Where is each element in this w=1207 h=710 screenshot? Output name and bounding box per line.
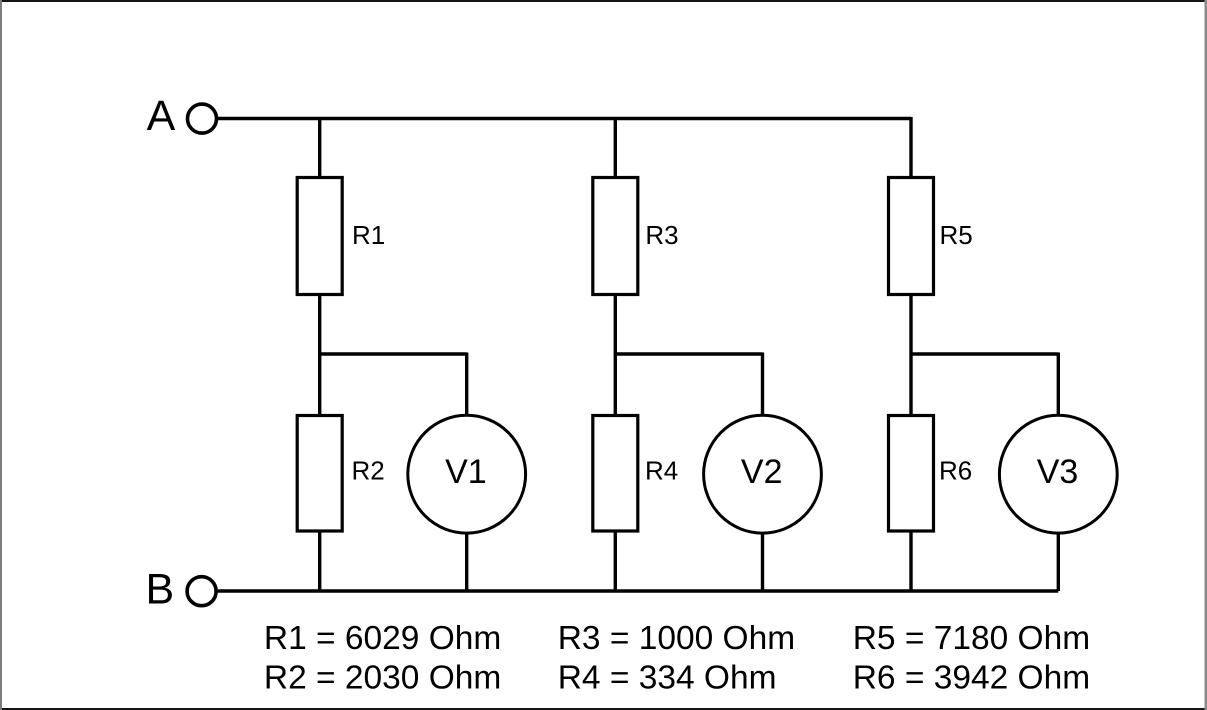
voltmeter V1 xyxy=(408,415,526,533)
wire V1 upper lead xyxy=(465,353,468,417)
wire branch 2 junction to V2 xyxy=(614,352,763,355)
resistor R4 xyxy=(593,416,638,532)
svg-text:V3: V3 xyxy=(1037,453,1079,491)
wire branch 2 lower lead xyxy=(614,531,617,591)
wire bottom bus from B to V3 lead xyxy=(218,589,1059,592)
svg-text:R6 = 3942 Ohm: R6 = 3942 Ohm xyxy=(853,660,1090,697)
border frame bottom xyxy=(0,708,1207,710)
svg-text:R5: R5 xyxy=(940,220,973,250)
node A terminal circle xyxy=(188,104,217,133)
wire V1 lower lead xyxy=(465,533,468,591)
wire branch 3 junction to V3 xyxy=(910,352,1059,355)
wire branch 3 upper lead xyxy=(909,117,912,179)
border frame left xyxy=(0,0,2,710)
wire branch 1 upper lead xyxy=(318,117,321,179)
wire V2 lower lead xyxy=(761,533,764,591)
wire branch 2 upper lead xyxy=(614,117,617,179)
wire top bus from A to branch 3 xyxy=(218,117,911,120)
svg-text:R1 = 6029 Ohm: R1 = 6029 Ohm xyxy=(264,620,501,657)
voltmeter V3 xyxy=(999,415,1117,533)
svg-text:R3: R3 xyxy=(645,220,678,250)
svg-text:R2 = 2030 Ohm: R2 = 2030 Ohm xyxy=(264,660,501,697)
wire branch 1 junction to V1 xyxy=(318,352,467,355)
wire branch 1 lower lead xyxy=(318,531,321,591)
wire branch 1 middle lead xyxy=(318,295,321,416)
resistor R5 xyxy=(889,178,934,295)
svg-text:R4 = 334 Ohm: R4 = 334 Ohm xyxy=(558,660,777,697)
wire branch 3 middle lead xyxy=(909,295,912,416)
wire V3 upper lead xyxy=(1057,353,1060,417)
svg-text:V2: V2 xyxy=(741,453,783,491)
border frame top xyxy=(0,0,1207,2)
border frame right xyxy=(1205,0,1207,710)
svg-text:R1: R1 xyxy=(352,220,385,250)
svg-text:A: A xyxy=(147,92,176,140)
node B terminal circle xyxy=(187,577,216,606)
svg-text:V1: V1 xyxy=(445,453,487,491)
voltmeter V2 xyxy=(704,415,822,533)
wire V2 upper lead xyxy=(761,353,764,417)
svg-text:R5 = 7180 Ohm: R5 = 7180 Ohm xyxy=(853,620,1090,657)
resistor R1 xyxy=(297,178,342,295)
wire V3 lower lead xyxy=(1057,533,1060,591)
wire branch 2 middle lead xyxy=(614,295,617,416)
svg-text:R4: R4 xyxy=(645,456,678,486)
svg-text:R6: R6 xyxy=(939,456,972,486)
resistor R3 xyxy=(593,178,638,295)
wire branch 3 lower lead xyxy=(909,531,912,591)
svg-text:R2: R2 xyxy=(352,456,385,486)
resistor R2 xyxy=(297,416,342,532)
svg-text:B: B xyxy=(146,566,175,614)
svg-text:R3 = 1000 Ohm: R3 = 1000 Ohm xyxy=(558,620,795,657)
resistor R6 xyxy=(889,416,934,532)
